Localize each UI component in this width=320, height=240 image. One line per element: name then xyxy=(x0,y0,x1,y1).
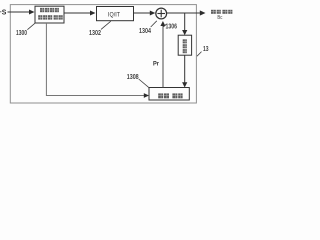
svg-text:1304: 1304 xyxy=(139,28,151,35)
svg-text:Pr: Pr xyxy=(153,62,160,68)
svg-text:1302: 1302 xyxy=(89,30,101,37)
svg-text:Bc: Bc xyxy=(217,15,222,21)
svg-text:IQ/IT: IQ/IT xyxy=(108,12,120,18)
svg-text:1300: 1300 xyxy=(16,30,27,37)
svg-text:S: S xyxy=(2,10,7,17)
svg-text:1308: 1308 xyxy=(127,74,139,81)
svg-text:1306: 1306 xyxy=(166,24,178,31)
svg-text:13: 13 xyxy=(203,46,209,53)
